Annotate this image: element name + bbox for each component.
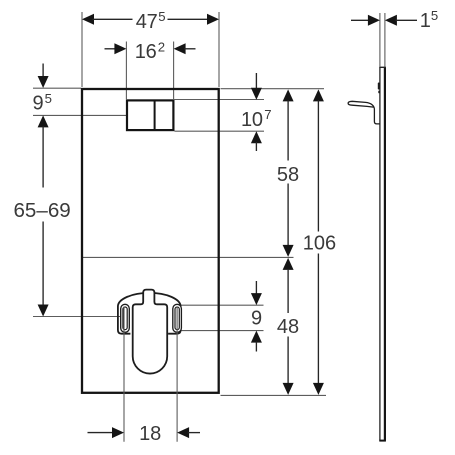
svg-text:5: 5 — [431, 8, 438, 23]
dimension 10.7 — [241, 73, 272, 151]
side view panel top cap — [379, 66, 386, 68]
svg-text:48: 48 — [277, 316, 299, 338]
left fixing slot outer — [121, 304, 130, 332]
flush button plate — [127, 100, 173, 130]
dimension 48 — [277, 258, 299, 395]
wire: extension lines for 18 dim through slot centres — [124, 307, 177, 442]
side view clip bumps — [378, 83, 380, 90]
svg-text:106: 106 — [303, 233, 336, 255]
svg-text:2: 2 — [158, 40, 165, 55]
WC cutout central keyhole shape — [133, 290, 168, 374]
dimension 47.5 — [82, 9, 219, 33]
svg-text:10: 10 — [241, 109, 263, 131]
svg-text:16: 16 — [135, 41, 157, 63]
svg-text:5: 5 — [45, 91, 52, 106]
svg-text:5: 5 — [158, 9, 165, 24]
dimension 18 — [88, 423, 201, 445]
panel front view outline — [82, 89, 219, 393]
side view panel right (glass) line — [384, 67, 386, 440]
svg-text:47: 47 — [136, 11, 158, 33]
svg-text:9: 9 — [251, 308, 262, 330]
svg-text:65–69: 65–69 — [13, 199, 70, 222]
wire: left horizontal extension lines (9.5 / button centre / 65-69) — [33, 88, 126, 316]
dimension 58 — [277, 89, 299, 257]
svg-text:7: 7 — [264, 107, 271, 122]
svg-text:58: 58 — [277, 164, 299, 186]
dimension 65-69 — [13, 126, 70, 316]
left fixing slot inner — [123, 307, 127, 330]
svg-text:9: 9 — [33, 93, 44, 115]
side view panel bottom cap — [379, 440, 386, 442]
dimension 106 — [303, 89, 336, 395]
wire: extension lines for 47.5 dim — [82, 12, 219, 87]
side view panel left line — [379, 67, 381, 440]
side view wall bracket arm — [348, 101, 380, 124]
wire: extension lines for 1.5 dim — [380, 13, 385, 67]
svg-text:1: 1 — [420, 10, 431, 32]
dimension 1.5 — [351, 8, 438, 32]
right fixing slot inner — [175, 307, 179, 330]
dimension 9.5 — [33, 64, 52, 128]
flush button divider — [154, 100, 156, 130]
svg-text:18: 18 — [139, 423, 161, 445]
right fixing slot outer — [173, 304, 182, 332]
wire: extension lines for 16.2 dim — [126, 42, 173, 100]
WC cutout outer bell — [118, 293, 181, 334]
wire: right horizontal extension lines — [82, 89, 326, 396]
dimension 16.2 — [105, 40, 196, 63]
dimension 9 — [251, 281, 262, 352]
